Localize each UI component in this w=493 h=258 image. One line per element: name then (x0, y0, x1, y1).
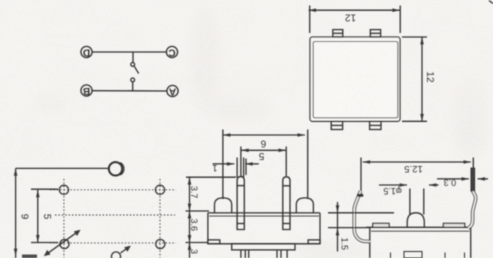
top view height extension lines (402, 36, 427, 38)
front view left pin (237, 177, 244, 230)
movable contact arrow through bottom-left pin (44, 230, 81, 256)
bottom view centerline horizontal row 2 (50, 242, 176, 244)
dimension 5 vertical (31, 189, 58, 242)
dimension 6 (241, 138, 286, 177)
wire switch bottom stub (132, 82, 134, 91)
bottom view pin hole bottom-right (156, 239, 165, 248)
dimension 1 pin width (212, 158, 243, 178)
dimension 12.5 (363, 160, 471, 174)
dimension 0.3 lead thickness (437, 177, 488, 187)
bottom view centerline horizontal row 1 (50, 189, 176, 191)
side view lead span extension right (472, 158, 474, 169)
dimension 12 vertical (420, 37, 435, 121)
wire D-C (92, 51, 166, 53)
side view top pad right (443, 223, 464, 227)
front view height dimension chain (186, 177, 237, 258)
top view inner edge (313, 42, 398, 118)
bottom view datum line (16, 167, 109, 169)
front view base step (232, 244, 295, 250)
corner mark top right (489, 1, 493, 4)
side view body (366, 227, 471, 258)
side view top pad left (373, 223, 389, 227)
front view top dimension line (223, 133, 305, 137)
dimension 12 horizontal (309, 8, 400, 22)
wire switch top stub (132, 52, 134, 62)
side view inner detail (404, 252, 422, 258)
side view right lead (468, 168, 475, 228)
bottom view centerline vertical left (63, 179, 65, 258)
bottom view centerline horizontal middle (55, 214, 175, 216)
front view lower step (241, 250, 287, 258)
side view left lead (354, 191, 370, 242)
dimension 9 vertical (14, 168, 30, 258)
wire B-A (92, 90, 167, 92)
switch contact bottom (131, 78, 135, 82)
dimension phi 1.5 stem (379, 183, 439, 196)
terminal B (81, 85, 92, 96)
front view bottom pins cut (245, 250, 281, 258)
top view width extension lines (309, 6, 311, 34)
bottom view actuator circle (109, 162, 122, 175)
bottom view pin hole bottom-left (60, 239, 69, 248)
top view lower tab 1 (331, 121, 342, 129)
side view lead span extension left (360, 158, 362, 192)
bottom view pin hole top-left (59, 185, 68, 194)
switch lever (134, 66, 138, 73)
side view stem (410, 189, 424, 215)
top view upper tab 2 (370, 30, 380, 37)
side view inner slots (391, 253, 465, 258)
bottom view pin hole top-right (155, 185, 164, 194)
top view upper tab 1 (333, 30, 343, 37)
terminal D (81, 46, 92, 57)
side view actuator dome (407, 213, 424, 228)
front view left standoff dome (215, 198, 232, 213)
dimension 1.5 lead height (328, 202, 394, 252)
cut-off mark bottom-left (22, 255, 37, 258)
terminal A (167, 85, 178, 96)
front view body (208, 213, 320, 244)
front view hole spacing extension lines (222, 130, 224, 200)
top view lower tab 2 (370, 121, 381, 129)
top view body outline (310, 37, 400, 121)
bottom view center pin hole (111, 252, 120, 258)
front view right pin (283, 177, 290, 230)
front view right standoff dome (296, 198, 313, 213)
arrow at center pin (121, 246, 131, 253)
dimension 5 pin spacing (245, 150, 264, 175)
switch contact top (131, 63, 135, 67)
bottom view centerline vertical right (159, 179, 161, 258)
terminal C (166, 46, 177, 57)
